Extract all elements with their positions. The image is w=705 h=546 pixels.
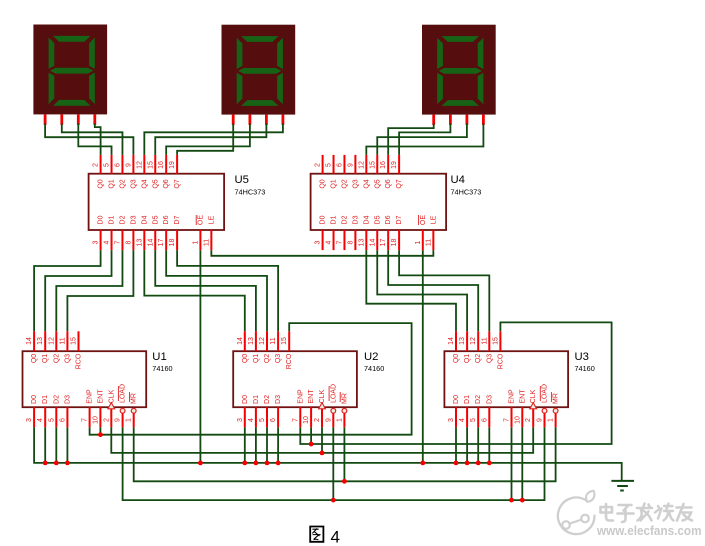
- svg-text:13: 13: [459, 337, 466, 345]
- svg-text:D1: D1: [109, 215, 116, 224]
- svg-text:MR: MR: [131, 393, 138, 404]
- svg-text:19: 19: [169, 161, 176, 169]
- svg-text:1: 1: [548, 418, 555, 422]
- svg-text:6: 6: [270, 418, 277, 422]
- svg-text:13: 13: [37, 337, 44, 345]
- svg-text:9: 9: [125, 163, 132, 167]
- svg-text:Q0: Q0: [31, 354, 38, 363]
- svg-text:12: 12: [259, 337, 266, 345]
- svg-text:D5: D5: [374, 215, 381, 224]
- svg-text:12: 12: [358, 161, 365, 169]
- svg-text:6: 6: [59, 418, 66, 422]
- svg-text:Q2: Q2: [119, 179, 126, 188]
- svg-text:18: 18: [169, 239, 176, 247]
- svg-text:Q2: Q2: [475, 354, 482, 363]
- svg-text:Q1: Q1: [464, 354, 471, 363]
- svg-text:U4: U4: [451, 174, 465, 186]
- svg-text:Q1: Q1: [331, 179, 338, 188]
- svg-text:15: 15: [492, 337, 499, 345]
- svg-text:D3: D3: [275, 395, 282, 404]
- svg-text:U2: U2: [364, 351, 378, 363]
- svg-text:7: 7: [114, 240, 121, 244]
- svg-text:1: 1: [192, 240, 199, 244]
- svg-text:D2: D2: [264, 395, 271, 404]
- svg-text:11: 11: [59, 337, 66, 344]
- svg-text:U5: U5: [235, 174, 249, 186]
- svg-text:D2: D2: [341, 215, 348, 224]
- svg-text:Q2: Q2: [264, 354, 271, 363]
- svg-text:Q2: Q2: [341, 179, 348, 188]
- svg-text:5: 5: [326, 163, 333, 167]
- svg-text:Q1: Q1: [109, 179, 116, 188]
- svg-text:11: 11: [425, 239, 432, 246]
- svg-text:6: 6: [336, 163, 343, 167]
- svg-text:13: 13: [248, 337, 255, 345]
- svg-text:4: 4: [331, 528, 340, 546]
- svg-text:D2: D2: [53, 395, 60, 404]
- svg-text:D3: D3: [130, 215, 137, 224]
- svg-text:7: 7: [504, 418, 511, 422]
- svg-text:14: 14: [448, 337, 455, 345]
- svg-text:Q1: Q1: [253, 354, 260, 363]
- svg-text:Q1: Q1: [42, 354, 49, 363]
- svg-text:D3: D3: [64, 395, 71, 404]
- svg-text:RCO: RCO: [497, 353, 504, 369]
- svg-text:CLK: CLK: [108, 389, 115, 403]
- svg-text:LOAD: LOAD: [542, 384, 549, 403]
- svg-text:10: 10: [303, 416, 310, 424]
- svg-text:8: 8: [125, 240, 132, 244]
- svg-text:74160: 74160: [575, 364, 595, 373]
- svg-text:ENT: ENT: [308, 389, 315, 404]
- svg-text:13: 13: [136, 239, 143, 247]
- svg-text:D1: D1: [253, 395, 260, 404]
- svg-text:15: 15: [281, 337, 288, 345]
- svg-text:4: 4: [248, 418, 255, 422]
- svg-text:D1: D1: [331, 215, 338, 224]
- svg-text:D3: D3: [352, 215, 359, 224]
- svg-text:3: 3: [93, 240, 100, 244]
- svg-text:D6: D6: [385, 215, 392, 224]
- svg-text:3: 3: [26, 418, 33, 422]
- svg-text:Q4: Q4: [363, 179, 370, 188]
- svg-text:Q0: Q0: [242, 354, 249, 363]
- svg-text:5: 5: [48, 418, 55, 422]
- svg-text:3: 3: [237, 418, 244, 422]
- svg-text:RCO: RCO: [286, 353, 293, 369]
- svg-text:Q5: Q5: [374, 179, 381, 188]
- svg-text:CLK: CLK: [319, 389, 326, 403]
- svg-text:LOAD: LOAD: [120, 384, 127, 403]
- svg-text:D3: D3: [486, 395, 493, 404]
- svg-text:4: 4: [37, 418, 44, 422]
- svg-text:Q2: Q2: [53, 354, 60, 363]
- svg-text:74160: 74160: [364, 364, 384, 373]
- svg-text:15: 15: [147, 161, 154, 169]
- svg-text:17: 17: [380, 239, 387, 247]
- svg-text:D0: D0: [31, 395, 38, 404]
- svg-text:ENT: ENT: [519, 389, 526, 404]
- svg-text:CLK: CLK: [530, 389, 537, 403]
- svg-text:5: 5: [259, 418, 266, 422]
- svg-text:Q3: Q3: [486, 354, 493, 363]
- svg-text:7: 7: [336, 240, 343, 244]
- svg-text:10: 10: [514, 416, 521, 424]
- svg-text:ENP: ENP: [509, 389, 516, 404]
- svg-text:D1: D1: [464, 395, 471, 404]
- svg-text:16: 16: [380, 161, 387, 169]
- svg-text:D7: D7: [174, 215, 181, 224]
- svg-text:Q7: Q7: [396, 179, 403, 188]
- svg-text:15: 15: [369, 161, 376, 169]
- svg-text:19: 19: [391, 161, 398, 169]
- svg-text:1: 1: [126, 418, 133, 422]
- svg-text:D1: D1: [42, 395, 49, 404]
- svg-text:MR: MR: [553, 393, 560, 404]
- svg-text:3: 3: [315, 240, 322, 244]
- svg-text:Q7: Q7: [174, 179, 181, 188]
- svg-text:ENP: ENP: [87, 389, 94, 404]
- svg-text:D6: D6: [163, 215, 170, 224]
- svg-text:14: 14: [26, 337, 33, 345]
- svg-text:Q3: Q3: [130, 179, 137, 188]
- svg-text:D0: D0: [242, 395, 249, 404]
- svg-text:2: 2: [103, 418, 110, 422]
- svg-text:2: 2: [93, 163, 100, 167]
- svg-text:ENP: ENP: [297, 389, 304, 404]
- svg-text:12: 12: [470, 337, 477, 345]
- svg-text:2: 2: [315, 163, 322, 167]
- svg-text:D0: D0: [98, 215, 105, 224]
- svg-text:Q0: Q0: [453, 354, 460, 363]
- svg-text:74HC373: 74HC373: [451, 188, 482, 197]
- svg-text:5: 5: [470, 418, 477, 422]
- svg-text:OE: OE: [420, 215, 427, 225]
- svg-text:Q3: Q3: [275, 354, 282, 363]
- svg-text:2: 2: [525, 418, 532, 422]
- svg-text:OE: OE: [197, 215, 204, 225]
- svg-text:4: 4: [104, 240, 111, 244]
- svg-text:D7: D7: [396, 215, 403, 224]
- svg-text:RCO: RCO: [76, 353, 83, 369]
- svg-text:Q6: Q6: [385, 179, 392, 188]
- svg-text:LOAD: LOAD: [330, 384, 337, 403]
- svg-text:U3: U3: [575, 351, 589, 363]
- svg-text:14: 14: [369, 239, 376, 247]
- svg-text:14: 14: [237, 337, 244, 345]
- svg-text:11: 11: [203, 239, 210, 246]
- svg-text:7: 7: [292, 418, 299, 422]
- svg-text:D5: D5: [152, 215, 159, 224]
- svg-text:D4: D4: [363, 215, 370, 224]
- svg-text:www.elecfans.com: www.elecfans.com: [596, 523, 701, 538]
- svg-text:74160: 74160: [152, 364, 172, 373]
- svg-text:6: 6: [481, 418, 488, 422]
- svg-text:Q3: Q3: [352, 179, 359, 188]
- svg-text:Q0: Q0: [98, 179, 105, 188]
- svg-text:Q4: Q4: [141, 179, 148, 188]
- svg-text:18: 18: [391, 239, 398, 247]
- svg-text:MR: MR: [341, 393, 348, 404]
- svg-text:7: 7: [82, 418, 89, 422]
- svg-text:12: 12: [48, 337, 55, 345]
- svg-text:4: 4: [326, 240, 333, 244]
- svg-text:6: 6: [114, 163, 121, 167]
- svg-text:D2: D2: [119, 215, 126, 224]
- svg-text:10: 10: [92, 416, 99, 424]
- svg-text:11: 11: [481, 337, 488, 344]
- svg-text:14: 14: [147, 239, 154, 247]
- svg-text:9: 9: [115, 418, 122, 422]
- svg-text:Q0: Q0: [320, 179, 327, 188]
- svg-text:1: 1: [415, 240, 422, 244]
- svg-text:U1: U1: [152, 351, 166, 363]
- svg-text:ENT: ENT: [97, 389, 104, 404]
- svg-text:1: 1: [336, 418, 343, 422]
- svg-text:11: 11: [270, 337, 277, 344]
- svg-text:D4: D4: [141, 215, 148, 224]
- svg-text:13: 13: [358, 239, 365, 247]
- svg-text:2: 2: [314, 418, 321, 422]
- svg-text:12: 12: [136, 161, 143, 169]
- svg-text:LE: LE: [208, 215, 215, 224]
- svg-text:3: 3: [448, 418, 455, 422]
- svg-text:9: 9: [325, 418, 332, 422]
- svg-text:9: 9: [537, 418, 544, 422]
- svg-text:D0: D0: [320, 215, 327, 224]
- svg-text:16: 16: [158, 161, 165, 169]
- svg-text:LE: LE: [430, 215, 437, 224]
- svg-text:5: 5: [104, 163, 111, 167]
- svg-text:Q3: Q3: [64, 354, 71, 363]
- svg-text:8: 8: [347, 240, 354, 244]
- svg-text:D0: D0: [453, 395, 460, 404]
- svg-text:9: 9: [347, 163, 354, 167]
- svg-text:15: 15: [71, 337, 78, 345]
- svg-text:D2: D2: [475, 395, 482, 404]
- svg-text:17: 17: [158, 239, 165, 247]
- svg-text:Q5: Q5: [152, 179, 159, 188]
- svg-text:Q6: Q6: [163, 179, 170, 188]
- svg-text:74HC373: 74HC373: [235, 188, 266, 197]
- svg-text:4: 4: [459, 418, 466, 422]
